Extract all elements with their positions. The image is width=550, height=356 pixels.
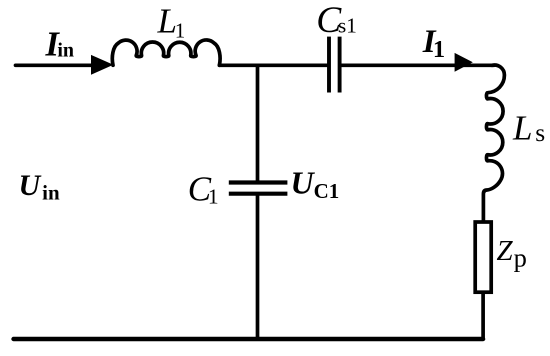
capacitor Cs1: [329, 37, 340, 93]
impedance Zp: [475, 222, 491, 292]
svg-text:C1: C1: [188, 170, 219, 209]
capacitor C1: [229, 183, 288, 194]
wire L1 to Cs1: [219, 63, 327, 67]
svg-text:I1: I1: [422, 24, 445, 63]
svg-text:Cs1: Cs1: [316, 0, 357, 41]
svg-text:Uin: Uin: [19, 169, 61, 204]
inductor L1: [112, 40, 220, 65]
inductor Ls: [483, 65, 504, 220]
wire Cs1 to Ls corner: [341, 63, 494, 67]
current arrow I_1: [455, 53, 473, 72]
svg-text:UC1: UC1: [291, 164, 340, 202]
svg-text:Iin: Iin: [45, 25, 75, 63]
wire Zp to bus: [481, 292, 485, 339]
svg-text:L1: L1: [157, 2, 186, 43]
wire input left: [16, 63, 97, 67]
svg-text:Ls: Ls: [512, 108, 545, 147]
svg-text:Zp: Zp: [497, 235, 527, 273]
current arrow I_in: [91, 55, 113, 75]
wire junction to C1 top: [256, 65, 260, 182]
wire C1 bottom to bus: [256, 196, 260, 339]
wire bottom bus: [14, 337, 484, 341]
